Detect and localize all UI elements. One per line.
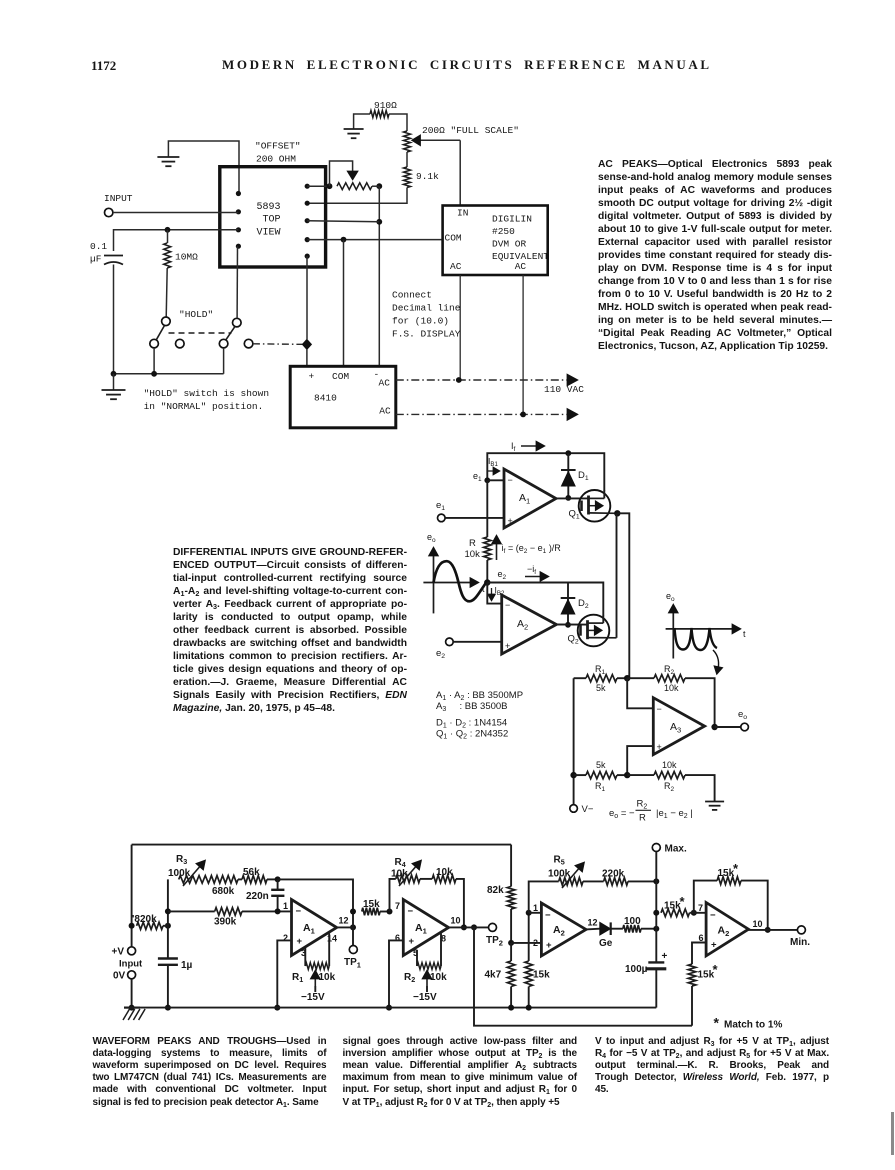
potentiometer 200 ohm FULL SCALE	[404, 131, 411, 152]
wire S1b NC dash-dot to 8410 plus	[253, 343, 307, 346]
svg-text:A2: A2	[718, 925, 730, 938]
page edge scan artifact	[891, 1112, 894, 1155]
switch S1a throw NC	[176, 339, 185, 348]
svg-text:A3: A3	[670, 721, 681, 734]
svg-text:−: −	[505, 600, 510, 610]
terminal V-	[570, 805, 578, 813]
svg-text:COM: COM	[332, 371, 349, 382]
svg-text:15k: 15k	[533, 970, 550, 981]
svg-text:AC: AC	[515, 261, 527, 272]
ground (top left)	[157, 156, 179, 158]
node 100-cap	[653, 926, 659, 932]
svg-text:+V: +V	[112, 947, 125, 958]
svg-text:−: −	[657, 704, 662, 714]
wire pin R5 down to diamond	[306, 256, 308, 339]
text block WAVEFORM col 3	[595, 1036, 829, 1097]
feedback wire A1 top	[487, 453, 604, 491]
switch S1a throw NO	[150, 339, 159, 348]
offset pot wire pin R1	[307, 185, 329, 187]
node D1 top	[565, 450, 571, 456]
wire pin L3 to cap and 10M	[114, 230, 239, 251]
node 820k left	[129, 923, 135, 929]
node A2b output	[765, 927, 771, 933]
op-amp A1 first	[292, 900, 337, 956]
pin R4 5893	[305, 237, 310, 242]
switch S1a pole	[162, 317, 171, 326]
switch S1b throw NO	[219, 339, 228, 348]
svg-text:t: t	[743, 629, 746, 639]
svg-text:e2: e2	[498, 569, 507, 581]
svg-text:Decimal line: Decimal line	[392, 303, 461, 314]
node 220k-max	[653, 878, 659, 884]
wire divider to A2a plus	[511, 942, 541, 944]
svg-text:F.S. DISPLAY: F.S. DISPLAY	[392, 329, 461, 340]
node AC1-DIGILIN	[456, 377, 462, 383]
svg-text:100: 100	[624, 916, 641, 927]
wire 82k from top rail	[510, 845, 512, 887]
node TP2 branch	[471, 924, 477, 930]
svg-text:e2: e2	[436, 648, 445, 660]
svg-text:910Ω: 910Ω	[374, 100, 397, 111]
diode D1	[567, 453, 569, 498]
svg-text:10MΩ: 10MΩ	[175, 252, 198, 263]
vertical R3-390k-1u	[167, 879, 169, 958]
wire 9.1k to 5893 pin R2	[307, 188, 407, 204]
wire Q1 node down to summing	[617, 513, 629, 678]
svg-text:R: R	[469, 538, 476, 549]
node junction 10M top	[165, 227, 171, 233]
svg-text:220k: 220k	[602, 869, 625, 880]
node e1 inverting	[484, 477, 490, 483]
pin L1 5893	[236, 191, 241, 196]
wire R2 bottom to ground	[685, 775, 715, 801]
op-amp A2	[502, 595, 557, 654]
svg-text:Min.: Min.	[790, 937, 810, 948]
node 15k rail	[526, 1005, 532, 1011]
node bottom mid	[624, 772, 630, 778]
switch S1b throw NC	[244, 339, 253, 348]
svg-text:+: +	[508, 516, 513, 526]
wire A1 out to Q1 gate	[556, 497, 588, 499]
svg-text:R2: R2	[664, 664, 675, 676]
wire R2 to output	[685, 678, 715, 727]
svg-text:+: +	[409, 936, 415, 947]
resistor 820k	[137, 922, 163, 929]
wire A3 plus to bottom node	[627, 746, 653, 775]
resistor 680k	[210, 876, 238, 884]
svg-text:7: 7	[395, 901, 400, 911]
svg-text:IN: IN	[457, 208, 468, 219]
transistor Q1	[579, 490, 611, 522]
svg-text:Q1: Q1	[569, 509, 580, 521]
svg-text:DIGILIN: DIGILIN	[492, 214, 532, 225]
svg-text:12: 12	[339, 916, 349, 926]
svg-text:µF: µF	[90, 254, 102, 265]
svg-text:8410: 8410	[314, 393, 337, 404]
svg-text:200Ω "FULL SCALE": 200Ω "FULL SCALE"	[422, 125, 519, 136]
svg-text:R1: R1	[595, 781, 606, 793]
switch arm S1b	[226, 327, 235, 340]
node pin1 A2a	[526, 910, 532, 916]
svg-text:82k: 82k	[487, 885, 504, 896]
wiper arrow 200 ohm pot	[418, 139, 460, 141]
svg-text:e1: e1	[436, 500, 445, 512]
pin R2 5893	[305, 201, 310, 206]
node pin7 A1b	[387, 909, 393, 915]
node bottom left	[570, 772, 576, 778]
svg-text:5k: 5k	[596, 760, 606, 770]
svg-text:A3 : BB 3500B: A3 : BB 3500B	[436, 701, 508, 713]
wire wiper to DIGILIN IN	[459, 140, 461, 205]
op-amp A3	[653, 698, 704, 755]
op-amp A2 first	[541, 903, 586, 956]
wire e1 terminal to A1 plus	[445, 517, 504, 519]
feedback 15k star A2b	[694, 881, 717, 913]
svg-text:−: −	[408, 906, 414, 917]
svg-text:10k: 10k	[465, 549, 481, 560]
node 1u rail	[165, 1005, 171, 1011]
svg-text:= (e2 − e1 )/R: = (e2 − e1 )/R	[508, 543, 561, 555]
svg-text:R2: R2	[404, 972, 415, 984]
svg-text:If: If	[511, 441, 516, 453]
curved arrow to R2	[713, 650, 719, 671]
op-amp A1	[504, 469, 556, 528]
wire A2 out to Q2 gate	[556, 624, 587, 626]
transistor Q2	[578, 615, 610, 647]
svg-text:+: +	[662, 951, 668, 962]
svg-text:"OFFSET": "OFFSET"	[255, 141, 301, 152]
node A2 output	[565, 622, 571, 628]
resistor R2 10k top	[654, 675, 685, 682]
wire 0V down to rail	[131, 979, 133, 1008]
node divider	[508, 940, 514, 946]
svg-text:−: −	[545, 910, 551, 921]
svg-text:R4: R4	[395, 857, 406, 869]
svg-text:A1: A1	[519, 492, 530, 505]
wire 910 ohm to 200 ohm pot	[389, 114, 407, 131]
wire pin L4 to switch S1b	[236, 246, 238, 318]
svg-text:INPUT: INPUT	[104, 193, 133, 204]
node 820k right	[165, 923, 171, 929]
svg-text:−15V: −15V	[301, 992, 325, 1003]
node A1a output	[350, 924, 356, 930]
svg-text:−: −	[296, 906, 302, 917]
svg-text:1: 1	[283, 901, 288, 911]
svg-text:100µ: 100µ	[625, 964, 648, 975]
node 390k left	[165, 908, 171, 914]
svg-text:eo: eo	[666, 591, 675, 603]
svg-text:6: 6	[395, 933, 400, 943]
node summing	[624, 675, 630, 681]
wire offset right down to 8410 minus	[378, 186, 380, 366]
diode Ge	[586, 928, 600, 931]
node A1 output	[565, 495, 571, 501]
resistor 100	[611, 928, 623, 930]
svg-text:110 VAC: 110 VAC	[544, 384, 584, 395]
svg-text:in "NORMAL" position.: in "NORMAL" position.	[144, 401, 264, 412]
svg-text:#250: #250	[492, 226, 515, 237]
wire pin2 A1a to rail	[277, 940, 291, 1007]
resistor 15k star to rail	[688, 964, 696, 986]
ground (bottom rail)	[113, 374, 115, 390]
svg-text:5k: 5k	[596, 683, 606, 693]
resistor 10M	[167, 230, 169, 243]
wire 8410 AC2 dash-dot arrow	[396, 413, 568, 415]
ground rail bottom	[132, 1007, 657, 1009]
resistor 15k interstage	[362, 908, 380, 916]
wire cap to bottom rail	[113, 265, 115, 374]
wire S1a throw to bottom rail	[153, 348, 155, 374]
capacitor 1u	[158, 957, 178, 959]
wire Q2 source up to Q1 node	[616, 513, 618, 638]
wire ground to 5893 pin L1	[168, 141, 239, 194]
box 8410	[290, 366, 396, 428]
node 15kstar left	[653, 910, 659, 916]
node A1b output	[461, 924, 467, 930]
svg-text:Connect: Connect	[392, 290, 432, 301]
resistor 82k	[507, 887, 515, 910]
terminal Max	[652, 844, 660, 852]
wire pot to 9.1k	[406, 152, 408, 167]
terminal Min	[749, 929, 798, 931]
svg-text:10: 10	[451, 916, 461, 926]
svg-text:10k: 10k	[664, 683, 679, 693]
svg-text:eo = −: eo = −	[609, 808, 635, 820]
pot R1 10k trim	[304, 948, 306, 967]
svg-text:IB1: IB1	[488, 456, 498, 468]
capacitor 220n	[277, 879, 279, 889]
node cap-rail	[111, 371, 117, 377]
wire summing to A3 minus	[627, 678, 653, 708]
pot R2 10k trim	[416, 950, 418, 966]
node offset right	[376, 183, 382, 189]
text block WAVEFORM col 2	[343, 1036, 578, 1109]
svg-text:TOP: TOP	[263, 215, 281, 226]
wire COM branch to 8410 COM	[343, 240, 345, 367]
resistor 390k	[168, 910, 215, 912]
svg-text:*: *	[713, 962, 719, 977]
svg-text:*: *	[733, 861, 739, 876]
node Q1 out	[614, 510, 620, 516]
wire A1a out up to 15k	[352, 912, 354, 928]
svg-text:10k: 10k	[662, 760, 677, 770]
offset wiper loop	[330, 161, 353, 186]
svg-text:'820k: '820k	[132, 914, 157, 925]
resistor 10k feedback A1b	[420, 878, 432, 880]
node A3 output	[711, 724, 717, 730]
svg-text:200 OHM: 200 OHM	[256, 154, 296, 165]
node e2	[484, 579, 490, 585]
svg-text:+: +	[297, 936, 303, 947]
wire +V vertical	[131, 845, 133, 947]
node AC2-DIGILIN	[520, 412, 526, 418]
node rail-left	[129, 1005, 135, 1011]
svg-text:A2: A2	[553, 924, 565, 937]
svg-text:TP2: TP2	[486, 935, 503, 947]
resistor 56k	[242, 876, 267, 884]
arrowhead 110VAC upper	[567, 374, 578, 386]
svg-text:TP1: TP1	[344, 957, 361, 969]
ground (A3)	[705, 801, 724, 803]
svg-text:for (10.0): for (10.0)	[392, 316, 449, 327]
text block DIFFERENTIAL INPUTS	[173, 546, 407, 716]
wire INPUT to pin L2	[113, 212, 238, 214]
wire R5 left down	[529, 881, 559, 912]
terminal e2	[446, 638, 454, 646]
wire diamond to 8410 +	[306, 349, 308, 366]
svg-text:AC: AC	[450, 261, 462, 272]
output waveform axes	[672, 609, 674, 659]
node 4k7 rail	[508, 1005, 514, 1011]
svg-text:680k: 680k	[212, 886, 235, 897]
svg-text:R5: R5	[554, 855, 565, 867]
diode D2	[567, 583, 569, 625]
left vertical V-	[573, 678, 575, 805]
svg-text:V−: V−	[582, 804, 594, 815]
resistor 220k	[583, 880, 604, 882]
svg-text:Q1 · Q2 : 2N4352: Q1 · Q2 : 2N4352	[436, 729, 508, 741]
node pin2 rail	[274, 1005, 280, 1011]
resistor R1 5k top	[574, 677, 586, 679]
switch gang dashed link	[169, 332, 232, 334]
resistor 4k7	[507, 961, 515, 987]
resistor 910 ohm	[370, 111, 389, 118]
svg-text:D2: D2	[578, 598, 589, 610]
terminal +V	[128, 947, 136, 955]
svg-text:eo: eo	[427, 532, 436, 544]
feedback R4 wire	[390, 879, 396, 912]
resistor R 10k	[486, 480, 488, 537]
node COM branch	[341, 237, 347, 243]
svg-text:+: +	[309, 371, 315, 382]
svg-text:D1: D1	[578, 470, 589, 482]
svg-text:e1: e1	[473, 471, 482, 483]
svg-text:0.1: 0.1	[90, 241, 107, 252]
resistor R2 10k bottom	[627, 774, 654, 776]
svg-text:390k: 390k	[214, 917, 237, 928]
wire Q2 drain corner	[602, 615, 604, 623]
wire S1b throw to bottom rail	[223, 348, 225, 374]
ground (910 ohm)	[344, 128, 364, 130]
svg-text:R3: R3	[176, 854, 187, 866]
svg-text:DVM OR: DVM OR	[492, 239, 527, 250]
bottom rail top schematic	[114, 373, 224, 375]
svg-text:VIEW: VIEW	[257, 228, 281, 239]
svg-text:10k: 10k	[319, 972, 336, 983]
wire pin6 A1b to rail	[389, 940, 403, 1007]
resistor 9.1k	[404, 167, 411, 188]
svg-text:2: 2	[533, 938, 538, 948]
svg-text:A2: A2	[517, 618, 528, 631]
svg-text:+: +	[505, 641, 510, 651]
potentiometer OFFSET 200 ohm	[337, 183, 372, 190]
box 5893 TOP VIEW	[220, 167, 326, 267]
svg-text:+: +	[657, 742, 662, 752]
wire pin R3	[307, 221, 379, 222]
node 220n top	[275, 876, 281, 882]
terminal 0V	[128, 971, 136, 979]
svg-text:−15V: −15V	[413, 992, 437, 1003]
svg-text:R: R	[639, 813, 646, 824]
svg-text:+: +	[711, 940, 717, 951]
text block AC PEAKS	[598, 158, 832, 354]
wire 100u to rail	[655, 969, 657, 1008]
resistor 15k to ground	[528, 913, 530, 961]
input waveform axes	[433, 552, 435, 613]
wire e1 node to A1 minus	[487, 479, 504, 481]
svg-text:|e1 − e2 |: |e1 − e2 |	[656, 808, 693, 820]
arrow if	[496, 540, 498, 560]
op-amp A2 second	[706, 903, 748, 956]
feedback wire A1a	[278, 879, 353, 911]
ground (hatched)	[124, 1006, 140, 1008]
svg-text:"HOLD" switch is shown: "HOLD" switch is shown	[144, 388, 269, 399]
wire TP2 down to lower rail	[474, 927, 692, 1025]
pin R5 5893	[305, 254, 310, 259]
svg-text:9.1k: 9.1k	[416, 171, 439, 182]
svg-text:15k: 15k	[363, 899, 380, 910]
top rail +V	[132, 844, 512, 846]
capacitor 100u electrolytic	[648, 961, 664, 963]
node 15k left	[350, 909, 356, 915]
text block WAVEFORM col 1	[93, 1036, 327, 1109]
terminal eo	[715, 726, 741, 728]
wire 10M to switch pole	[166, 268, 167, 317]
svg-text:AC: AC	[379, 406, 391, 417]
box DIGILIN #250 DVM	[443, 206, 548, 276]
node diamond 8410 plus	[302, 339, 311, 349]
running head title	[222, 57, 709, 73]
wire 8410 AC1 dash-dot to 110VAC	[396, 379, 568, 381]
wire A1b out to TP2	[449, 926, 489, 928]
output rectified humps	[675, 628, 718, 650]
node offset left	[327, 183, 333, 189]
pin R1 5893	[305, 184, 310, 189]
wire Q1 drain from top	[603, 490, 605, 498]
wire e2 terminal to A2 plus	[453, 641, 502, 643]
wire pin R4 to DIGILIN COM	[307, 239, 442, 241]
svg-text:R1: R1	[292, 972, 303, 984]
svg-text:6: 6	[699, 933, 704, 943]
arrowhead 110VAC lower	[567, 408, 578, 420]
svg-text:5893: 5893	[257, 202, 281, 213]
terminal TP1	[352, 927, 354, 945]
svg-text:if: if	[502, 543, 506, 555]
svg-text:−: −	[710, 910, 716, 921]
wire 1u to rail	[167, 965, 169, 1008]
node pin R3 join	[376, 219, 382, 225]
svg-text:Input: Input	[119, 959, 143, 970]
node pin6 rail	[386, 1005, 392, 1011]
svg-text:*: *	[680, 894, 686, 909]
svg-text:220n: 220n	[246, 891, 269, 902]
svg-text:1: 1	[533, 903, 538, 913]
node S1a-rail	[151, 371, 157, 377]
svg-text:Q2: Q2	[568, 634, 579, 646]
svg-text:+: +	[546, 940, 552, 951]
pin L3 5893	[236, 227, 241, 232]
svg-text:Max.: Max.	[665, 844, 687, 855]
svg-text:Match to 1%: Match to 1%	[724, 1020, 782, 1031]
svg-text:Ge: Ge	[599, 938, 613, 949]
switch S1b pole	[233, 318, 242, 327]
svg-text:AC: AC	[379, 378, 391, 389]
pin L2 5893	[236, 209, 241, 214]
svg-text:10k: 10k	[436, 867, 453, 878]
svg-text:10k: 10k	[430, 972, 447, 983]
svg-text:1µ: 1µ	[181, 960, 193, 971]
page number	[91, 58, 116, 74]
